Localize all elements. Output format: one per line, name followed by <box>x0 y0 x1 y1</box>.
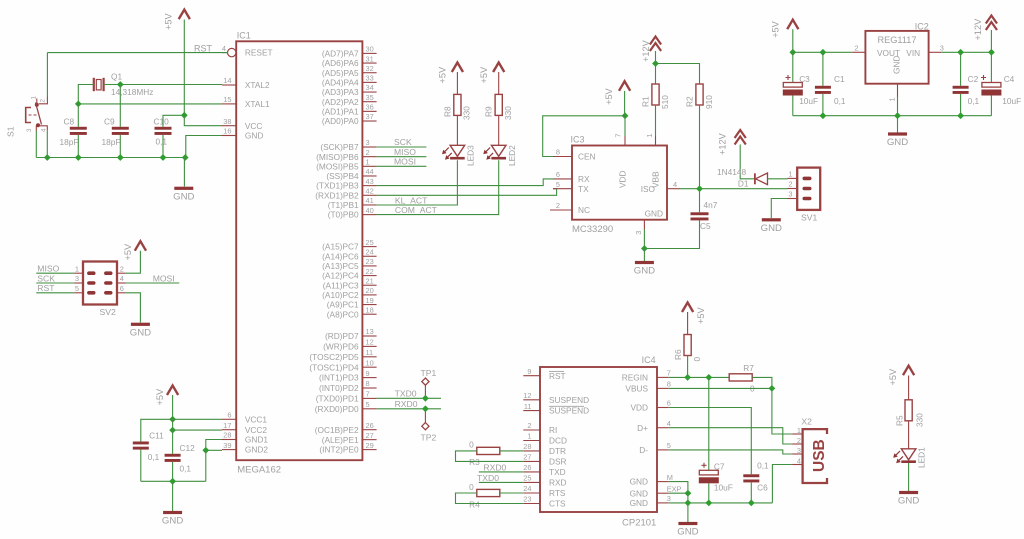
svg-text:25: 25 <box>523 474 531 483</box>
svg-text:10uF: 10uF <box>1002 96 1021 106</box>
svg-text:4: 4 <box>797 456 801 465</box>
svg-text:(A9)PC1: (A9)PC1 <box>327 300 359 310</box>
svg-text:TXD0: TXD0 <box>395 389 417 399</box>
svg-text:3: 3 <box>788 190 792 199</box>
IC1 pin 5 (RXD0)PD0 <box>315 400 377 414</box>
svg-text:12: 12 <box>523 391 531 400</box>
IC1 pin 9 (INT1)PD3 <box>319 369 377 383</box>
LED LED1 <box>893 447 926 468</box>
svg-text:MC33290: MC33290 <box>572 224 613 235</box>
IC1 pin 39 GND2 <box>222 441 268 455</box>
svg-text:(TOSC2)PD5: (TOSC2)PD5 <box>309 352 359 362</box>
svg-text:38: 38 <box>223 117 231 126</box>
svg-text:GND: GND <box>761 223 782 234</box>
IC1 pin 34 (AD3)PA3 <box>322 83 377 97</box>
svg-text:25: 25 <box>366 238 374 247</box>
IC4 pin 24 RTS <box>523 484 566 498</box>
IC4 pin 12 SUSPEND <box>523 391 589 405</box>
IC3 pin 6 RX <box>553 170 590 184</box>
IC1 pin 15 XTAL1 <box>222 95 270 109</box>
switch S1 <box>6 96 48 138</box>
wire +12V to D1 <box>740 145 754 179</box>
wire C5 top <box>699 189 701 213</box>
wire VBUS to X2 pin1 <box>772 388 792 434</box>
wire C5 bottom <box>644 220 699 248</box>
svg-text:4: 4 <box>120 274 124 283</box>
IC3 pin 2 NC <box>550 201 590 215</box>
capacitor C10 0,1 <box>154 116 172 146</box>
svg-text:GND1: GND1 <box>245 435 268 445</box>
net label MOSI <box>394 157 416 167</box>
IC1 pin 37 (AD0)PA0 <box>322 112 377 126</box>
resistor R4 0 <box>469 482 500 510</box>
svg-text:SV1: SV1 <box>801 212 817 222</box>
svg-text:SCK: SCK <box>37 273 55 283</box>
svg-text:6: 6 <box>120 284 124 293</box>
svg-text:4: 4 <box>222 44 226 53</box>
svg-text:19: 19 <box>366 296 374 305</box>
svg-text:(RD)PD7: (RD)PD7 <box>325 331 359 341</box>
IC1 pin 10 (TOSC1)PD4 <box>309 358 376 372</box>
svg-text:8: 8 <box>667 380 671 389</box>
wire C4 bottom <box>990 96 992 116</box>
svg-text:27: 27 <box>523 453 531 462</box>
net label RST at SV2 <box>37 283 55 293</box>
IC4 pin 26 TXD <box>523 463 565 477</box>
wire S1 pin4 to ground rail <box>46 131 48 158</box>
wire R9 to LED2 <box>498 115 500 145</box>
capacitor C1 0,1 <box>815 74 846 106</box>
svg-text:GND: GND <box>887 137 908 148</box>
X2 pin 2 <box>792 436 803 445</box>
svg-text:LED2: LED2 <box>507 145 517 166</box>
IC1 pin 28 GND1 <box>222 431 268 445</box>
capacitor C7 10uF <box>699 462 733 493</box>
diode D1 1N4148 <box>717 167 768 189</box>
svg-text:C2: C2 <box>968 74 979 84</box>
svg-text:+5V: +5V <box>164 13 174 30</box>
IC1 pin 36 (AD1)PA1 <box>322 103 377 117</box>
svg-text:DCD: DCD <box>549 436 567 446</box>
svg-text:+12V: +12V <box>641 39 651 62</box>
junction GND1/GND2 <box>202 447 209 454</box>
svg-text:REG1117: REG1117 <box>878 35 917 45</box>
wire C9 riser <box>119 85 121 127</box>
wire IC4 gnd rail <box>669 502 773 504</box>
wire VCC2 wire <box>173 429 222 431</box>
svg-text:XTAL1: XTAL1 <box>245 99 270 109</box>
wire R4 left to CTS <box>456 493 524 504</box>
connector SV1 <box>797 168 820 223</box>
IC3 pin 4 ISO <box>641 180 680 194</box>
svg-text:4: 4 <box>667 419 671 428</box>
junction R6/REGIN <box>684 374 691 381</box>
svg-text:+5V: +5V <box>888 368 898 385</box>
svg-text:R3: R3 <box>469 457 480 467</box>
wire to GND symbol <box>643 249 645 262</box>
svg-text:VCC2: VCC2 <box>245 425 268 435</box>
IC1 pin 29 (INT2)PE0 <box>319 441 376 455</box>
capacitor C3 10uF <box>783 74 818 106</box>
wire C7 riser <box>708 377 710 470</box>
wire R4 right to RTS <box>500 492 524 494</box>
svg-text:(AD1)PA1: (AD1)PA1 <box>322 106 359 116</box>
svg-text:26: 26 <box>523 463 531 472</box>
wire GND2 wire <box>206 449 222 451</box>
net label MOSI at SV2 <box>153 273 175 283</box>
wire C7 bottom <box>708 483 710 503</box>
svg-text:+5V: +5V <box>123 243 133 260</box>
svg-text:0,1: 0,1 <box>757 461 769 471</box>
svg-text:(TOSC1)PD4: (TOSC1)PD4 <box>309 362 359 372</box>
junction GND/rail <box>894 112 901 119</box>
wire VDD node to CEN <box>543 116 625 157</box>
svg-text:1: 1 <box>788 170 792 179</box>
svg-text:GND2: GND2 <box>245 445 268 455</box>
svg-text:Q1: Q1 <box>111 72 122 82</box>
SV2 pin 2 <box>117 264 126 273</box>
IC4 pin M GND <box>630 473 673 487</box>
svg-text:GND: GND <box>630 498 648 508</box>
junction C7/REGIN <box>705 374 712 381</box>
svg-text:17: 17 <box>223 421 231 430</box>
svg-text:32: 32 <box>366 64 374 73</box>
svg-text:C4: C4 <box>1004 74 1015 84</box>
svg-text:VDD: VDD <box>630 403 648 413</box>
IC1 pin 41 (T1)PB1 <box>328 196 377 210</box>
resistor R6 0 <box>673 335 702 362</box>
svg-text:CP2101: CP2101 <box>622 518 656 529</box>
ground below IC4 <box>677 522 698 538</box>
svg-text:33: 33 <box>366 74 374 83</box>
svg-text:22: 22 <box>366 267 374 276</box>
X2 pin 4 <box>792 456 803 465</box>
wire TXD wire <box>479 471 524 473</box>
IC1 pin 35 (AD2)PA2 <box>322 93 377 107</box>
wire XTAL1 net <box>78 103 222 105</box>
SV2 pin 4 <box>117 274 126 283</box>
connector X2 USB <box>801 417 828 484</box>
svg-text:VDD: VDD <box>618 170 628 188</box>
svg-text:23: 23 <box>366 257 374 266</box>
svg-text:RST: RST <box>194 43 213 53</box>
svg-text:1N4148: 1N4148 <box>717 167 746 177</box>
svg-text:(A13)PC5: (A13)PC5 <box>322 261 359 271</box>
svg-text:IC2: IC2 <box>915 21 929 31</box>
svg-text:3: 3 <box>940 43 944 52</box>
+5V supply above R8 <box>438 63 464 84</box>
IC4 pin 9 RST <box>523 367 565 381</box>
svg-text:5: 5 <box>667 441 671 450</box>
svg-text:16: 16 <box>223 127 231 136</box>
svg-text:S1: S1 <box>6 126 16 137</box>
svg-text:(MOSI)PB5: (MOSI)PB5 <box>316 161 359 171</box>
svg-text:USB: USB <box>811 439 828 472</box>
wire crystal right to XTAL2 <box>104 84 222 86</box>
svg-text:26: 26 <box>366 421 374 430</box>
resistor R7 0 <box>729 363 755 394</box>
wire C1 bottom <box>822 94 824 116</box>
resistor R3 0 <box>469 440 500 468</box>
svg-text:5: 5 <box>75 284 79 293</box>
svg-text:C6: C6 <box>757 483 768 493</box>
svg-text:(AD5)PA5: (AD5)PA5 <box>322 68 359 78</box>
svg-text:M: M <box>667 473 673 482</box>
IC1 pin 19 (A9)PC1 <box>327 296 377 310</box>
junction VBUS/X2 <box>769 385 776 392</box>
svg-text:NC: NC <box>578 205 590 215</box>
wire C10 to rail <box>162 135 164 158</box>
svg-text:RX: RX <box>578 174 590 184</box>
svg-text:13: 13 <box>366 327 374 336</box>
svg-text:10uF: 10uF <box>799 96 818 106</box>
IC1 pin 32 (AD5)PA5 <box>322 64 377 78</box>
wire SV2-4 MOSI <box>126 282 179 284</box>
svg-text:+5V: +5V <box>155 388 165 405</box>
svg-text:TP2: TP2 <box>421 433 437 443</box>
svg-text:R2: R2 <box>684 96 694 107</box>
net label RXD0 <box>395 399 418 409</box>
svg-text:SV2: SV2 <box>100 307 116 317</box>
svg-text:2: 2 <box>556 201 560 210</box>
svg-text:VCC: VCC <box>245 121 263 131</box>
wire R7 to VBUS <box>752 377 772 388</box>
IC3 pin 7 VDD <box>614 133 628 188</box>
svg-text:IC1: IC1 <box>237 31 251 41</box>
svg-text:GND: GND <box>630 477 648 487</box>
svg-text:GND: GND <box>898 496 919 507</box>
wire C8 riser <box>77 104 79 127</box>
svg-text:R7: R7 <box>743 363 754 373</box>
svg-text:36: 36 <box>366 103 374 112</box>
svg-text:2: 2 <box>40 99 47 103</box>
svg-text:C7: C7 <box>714 462 725 472</box>
IC1 pin 23 (A13)PC5 <box>322 257 376 271</box>
+5V supply above IC3 <box>604 81 630 105</box>
svg-text:(A10)PC2: (A10)PC2 <box>322 290 359 300</box>
svg-text:29: 29 <box>366 441 374 450</box>
IC1 pin 11 (TOSC2)PD5 <box>309 348 376 362</box>
wire SV1 pin3 to GND <box>771 199 787 219</box>
IC2 pin 2 VOUT <box>852 44 865 53</box>
svg-text:GND: GND <box>130 327 151 338</box>
svg-text:+5V: +5V <box>479 66 489 83</box>
svg-text:R6: R6 <box>673 349 683 360</box>
capacitor C6 0,1 <box>743 461 769 493</box>
+12V supply at IC2 in <box>973 16 997 41</box>
svg-text:24: 24 <box>366 247 374 256</box>
IC1 pin 18 (A8)PC0 <box>327 305 377 319</box>
junction R1/+12V <box>652 60 659 67</box>
wire rail to GND sym <box>687 503 689 522</box>
IC1 pin 2 (MISO)PB6 <box>316 148 376 162</box>
svg-text:C3: C3 <box>799 74 810 84</box>
wire GND pin wire <box>186 136 222 158</box>
svg-text:(INT2)PE0: (INT2)PE0 <box>319 445 359 455</box>
svg-text:3: 3 <box>797 446 801 455</box>
svg-text:+12V: +12V <box>718 132 728 155</box>
svg-text:8: 8 <box>366 379 370 388</box>
junction C10/rail <box>160 154 167 161</box>
net label SCK at SV2 <box>37 273 55 283</box>
svg-text:(A12)PC4: (A12)PC4 <box>322 271 359 281</box>
svg-text:R5: R5 <box>895 415 905 426</box>
svg-text:GND: GND <box>245 131 263 141</box>
wire R8 top <box>456 72 458 94</box>
capacitor C11 0,1 <box>133 430 164 461</box>
wire rail to GND sym <box>172 481 174 511</box>
net label MISO <box>394 147 416 157</box>
svg-text:0,1: 0,1 <box>834 96 846 106</box>
svg-text:VCC1: VCC1 <box>245 414 268 424</box>
wire ISO net to SV1 pin2 <box>680 188 788 190</box>
svg-text:14,318MHz: 14,318MHz <box>111 87 153 97</box>
junction gnd rail C6 <box>748 500 755 507</box>
junction C8/rail <box>75 154 82 161</box>
svg-text:+5V: +5V <box>438 66 448 83</box>
IC1 pin 22 (A12)PC4 <box>322 267 376 281</box>
junction VCC2 node <box>169 427 176 434</box>
junction C2/rail <box>957 112 964 119</box>
svg-text:GND: GND <box>645 209 663 219</box>
IC1 pin 13 (RD)PD7 <box>325 327 377 341</box>
svg-text:330: 330 <box>915 413 925 427</box>
SV1 pin 3 <box>788 190 798 199</box>
wire LED1 to GND <box>908 463 910 491</box>
svg-text:4n7: 4n7 <box>704 200 718 210</box>
svg-text:28: 28 <box>523 442 531 451</box>
capacitor C4 10uF <box>981 74 1021 106</box>
svg-text:R1: R1 <box>640 96 650 107</box>
wire IC2 GND pin drop <box>897 97 899 116</box>
svg-text:0,1: 0,1 <box>148 452 160 462</box>
IC4 pin 5 D- <box>639 441 671 455</box>
svg-text:3: 3 <box>75 274 79 283</box>
wire EXP down <box>687 493 689 503</box>
svg-text:(T1)PB1: (T1)PB1 <box>328 200 359 210</box>
svg-text:0: 0 <box>469 440 474 450</box>
SV2 pin 6 <box>117 284 126 293</box>
svg-text:0,1: 0,1 <box>156 137 168 147</box>
wire PB2 to IC3 TX <box>377 189 557 196</box>
svg-text:7: 7 <box>366 390 370 399</box>
+5V supply near IC1 reset <box>164 10 190 30</box>
svg-text:6: 6 <box>667 399 671 408</box>
svg-text:(AD0)PA0: (AD0)PA0 <box>322 116 359 126</box>
svg-text:30: 30 <box>366 45 374 54</box>
IC4 pin 8 VBUS <box>625 380 670 394</box>
svg-text:GND: GND <box>891 56 901 74</box>
svg-text:3: 3 <box>634 231 643 235</box>
svg-text:2: 2 <box>854 44 858 53</box>
svg-text:1: 1 <box>31 96 38 100</box>
junction XTAL2/C9 <box>117 81 124 88</box>
svg-text:GND: GND <box>677 527 698 538</box>
IC3 pin 3 GND <box>634 209 663 235</box>
junction GND/rail <box>182 154 189 161</box>
svg-text:+5V: +5V <box>604 87 614 104</box>
junction gnd rail C7 <box>705 500 712 507</box>
svg-text:1: 1 <box>366 158 370 167</box>
svg-text:0: 0 <box>692 357 702 362</box>
IC1 pin 17 VCC2 <box>222 421 267 435</box>
svg-text:(AD7)PA7: (AD7)PA7 <box>322 49 359 59</box>
wire D+ net <box>669 428 792 444</box>
svg-text:(MISO)PB6: (MISO)PB6 <box>316 152 359 162</box>
svg-text:LED3: LED3 <box>466 145 476 166</box>
junction TP1/TXD0 <box>422 395 429 402</box>
IC2 pin 1 GND <box>887 84 897 102</box>
IC4 pin 7 REGIN <box>622 369 671 383</box>
wire REGIN net <box>669 376 730 378</box>
wire SV2-6 to GND <box>126 293 140 323</box>
svg-text:18pF: 18pF <box>60 137 79 147</box>
wire RST net to RESET pin <box>47 52 227 54</box>
wire +5V down to VCC junction <box>183 20 185 116</box>
svg-text:18pF: 18pF <box>102 137 121 147</box>
svg-text:C1: C1 <box>834 74 845 84</box>
wire rail to GND sym <box>897 116 899 133</box>
IC4 pin 4 D+ <box>637 419 671 433</box>
wire S1 pin3 to ground rail <box>35 131 37 158</box>
svg-text:11: 11 <box>366 348 374 357</box>
svg-text:GND: GND <box>173 191 194 202</box>
IC1 pin 8 (INT0)PD2 <box>319 379 377 393</box>
svg-text:(WR)PD6: (WR)PD6 <box>323 342 359 352</box>
svg-text:39: 39 <box>223 441 231 450</box>
wire R2 to ISO node <box>699 105 701 189</box>
junction XTAL1/C8 <box>75 101 82 108</box>
wire VDD net <box>669 408 752 475</box>
X2 pin 1 <box>792 426 803 435</box>
svg-text:VIN: VIN <box>906 48 920 58</box>
IC4 pin 25 RXD <box>523 474 566 488</box>
svg-text:SUSPEND: SUSPEND <box>549 406 589 416</box>
svg-text:(A8)PC0: (A8)PC0 <box>327 309 359 319</box>
wire VCC pin wire <box>184 115 222 125</box>
svg-text:43: 43 <box>366 177 374 186</box>
IC1 pin 33 (AD4)PA4 <box>322 74 377 88</box>
svg-text:12: 12 <box>366 338 374 347</box>
IC1 pin 30 (AD7)PA7 <box>322 45 377 59</box>
svg-text:+5V: +5V <box>696 307 706 324</box>
svg-text:1: 1 <box>887 97 896 101</box>
+12V supply above D1 <box>718 130 746 155</box>
IC1 pin 12 (WR)PD6 <box>323 338 377 352</box>
svg-text:37: 37 <box>366 112 374 121</box>
wire +12V stem <box>655 51 657 64</box>
wire R3 left to DSR <box>456 451 524 462</box>
svg-text:MOSI: MOSI <box>394 157 416 167</box>
svg-text:MISO: MISO <box>394 147 416 157</box>
svg-text:7: 7 <box>667 369 671 378</box>
resistor R2 910 <box>684 84 714 109</box>
wire RST down to S1 <box>46 53 48 97</box>
wire C6 bottom <box>750 483 752 503</box>
svg-text:910: 910 <box>704 95 714 109</box>
svg-text:XTAL2: XTAL2 <box>245 80 270 90</box>
svg-text:+12V: +12V <box>973 18 983 41</box>
svg-text:(RXD0)PD0: (RXD0)PD0 <box>315 404 359 414</box>
IC1 pin 27 (ALE)PE1 <box>322 431 377 445</box>
svg-text:1: 1 <box>645 133 654 137</box>
IC1 pin 6 VCC1 <box>222 411 267 425</box>
svg-text:3: 3 <box>26 128 33 132</box>
svg-text:DSR: DSR <box>549 457 567 467</box>
wire TXD0 net <box>377 397 441 399</box>
wire VBUS net <box>669 387 772 389</box>
svg-text:1: 1 <box>527 432 531 441</box>
